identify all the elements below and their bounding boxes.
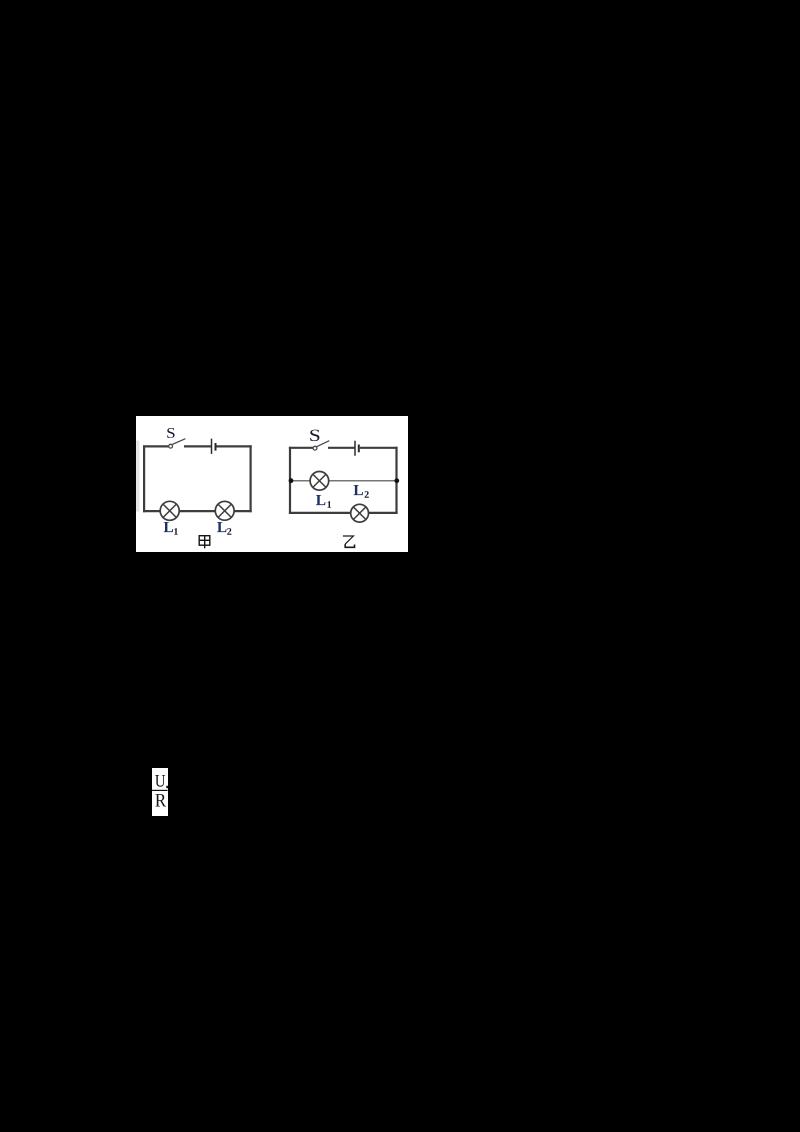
wire: yi left vertical bbox=[289, 446, 291, 513]
wire: jia bottom bbox=[143, 510, 252, 512]
wire: jia left vertical bbox=[143, 445, 145, 512]
fraction bar bbox=[152, 790, 168, 791]
junction node left bbox=[289, 478, 294, 483]
wire: jia right vertical bbox=[250, 445, 252, 512]
circuit figure white panel bbox=[136, 416, 408, 553]
wire: jia top segment 2 bbox=[184, 445, 211, 447]
wire: yi top segment 2 bbox=[328, 446, 354, 448]
battery jia long plate bbox=[211, 438, 213, 453]
wire: yi bottom bbox=[289, 511, 398, 513]
battery yi short plate bbox=[358, 444, 360, 452]
wire: yi right vertical bbox=[395, 446, 397, 513]
label L1 (yi) bbox=[316, 495, 325, 505]
scanner gray strip left edge bbox=[136, 440, 139, 511]
label L2 (yi) bbox=[354, 485, 363, 495]
switch S2 lever bbox=[317, 440, 330, 446]
lamp L1 (yi) bbox=[310, 471, 329, 490]
wire: jia top segment 3 bbox=[216, 445, 251, 447]
wire: yi middle branch bbox=[290, 479, 397, 481]
switch S1 pivot bbox=[169, 444, 173, 448]
battery yi long plate bbox=[354, 440, 356, 455]
lamp L2 (jia) bbox=[215, 501, 234, 520]
label YI character bbox=[343, 536, 355, 547]
label S (yi) bbox=[310, 429, 319, 441]
switch S1 lever bbox=[172, 438, 185, 444]
lamp L2 (yi) bbox=[351, 504, 369, 522]
denominator R bbox=[155, 794, 166, 806]
fraction U/R panel bbox=[152, 768, 168, 816]
wire: yi top segment 3 bbox=[360, 446, 398, 448]
wire: yi top segment 1 bbox=[289, 446, 313, 448]
period dot bbox=[166, 786, 168, 788]
junction node right bbox=[394, 478, 399, 483]
battery jia short plate bbox=[215, 443, 217, 451]
switch S2 pivot bbox=[313, 446, 317, 450]
numerator U bbox=[155, 775, 165, 787]
label L2 (jia) bbox=[217, 522, 226, 532]
lamp L1 (jia) bbox=[160, 501, 179, 520]
wire: jia top segment 1 bbox=[143, 445, 169, 447]
label L1 (jia) bbox=[164, 522, 173, 532]
label JIA character bbox=[199, 535, 210, 548]
label S (jia) bbox=[167, 428, 174, 438]
